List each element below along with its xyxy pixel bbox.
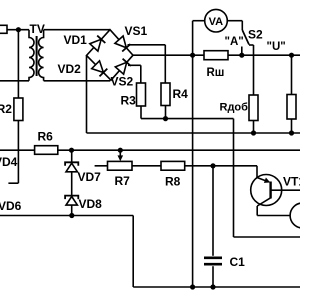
wire VA left lead down <box>192 21 194 287</box>
VT1 emitter with arrow <box>257 178 268 182</box>
thyristor VS1 <box>115 36 126 48</box>
svg-text:Rш: Rш <box>207 67 225 79</box>
wire zener ground line <box>0 215 133 217</box>
wire VT1 base lead <box>271 189 300 191</box>
indicator circle (cut at edge) <box>290 203 315 228</box>
wire VA left lead <box>193 20 205 22</box>
wire R3R4 bottom rail <box>141 118 234 120</box>
wire VS1 gate <box>128 44 166 46</box>
svg-text:VD1: VD1 <box>64 33 88 47</box>
switch S2 A-contact tick <box>241 47 243 56</box>
diode VD1 <box>90 39 101 51</box>
svg-text:R3: R3 <box>121 93 137 107</box>
svg-text:R7: R7 <box>115 174 131 188</box>
wire primary bottom <box>0 80 29 82</box>
thyristor VS2 <box>115 62 126 74</box>
resistor R8 <box>161 161 185 170</box>
svg-text:VD7: VD7 <box>78 170 102 184</box>
svg-text:R2: R2 <box>0 102 12 116</box>
wire S2 to Rdob <box>253 45 255 95</box>
wire emitter lead down <box>256 166 258 178</box>
wire R2 to lower stub <box>17 121 19 184</box>
node R8 right junction <box>210 163 215 168</box>
wire collector to lamp <box>257 215 290 217</box>
zener diode VD7 <box>66 163 77 172</box>
wire VA right lead <box>227 20 242 22</box>
wire bridge minus down <box>86 56 88 134</box>
svg-text:VD8: VD8 <box>79 197 103 211</box>
switch S2 lever <box>242 30 249 45</box>
resistor R3 <box>137 83 146 106</box>
resistor R2 <box>14 98 23 121</box>
wire secondary top to bridge <box>44 29 110 31</box>
wire R3 bottom <box>140 106 142 119</box>
resistor right edge <box>287 95 296 120</box>
svg-text:VS2: VS2 <box>111 75 134 89</box>
wire VD7 top lead <box>71 150 73 162</box>
svg-text:R4: R4 <box>173 87 189 101</box>
zener diode VD8 <box>66 197 77 206</box>
wire secondary bottom to bridge <box>44 80 111 82</box>
wire C1 top lead <box>212 166 214 256</box>
node R4 bottom junction <box>163 116 168 121</box>
resistor R6 <box>35 146 58 155</box>
wire bottom rail <box>133 286 300 288</box>
node R7 wiper junction <box>118 148 123 153</box>
svg-text:C1: C1 <box>230 255 246 269</box>
transformer TV secondary winding <box>39 30 44 81</box>
svg-text:VD6: VD6 <box>0 199 22 213</box>
wire down to bottom rail <box>132 216 134 288</box>
connector X1 input terminal <box>0 25 7 33</box>
VT1 base bar <box>269 182 271 199</box>
resistor R7 <box>108 161 133 170</box>
resistor Rsh shunt <box>204 51 228 60</box>
svg-text:VS1: VS1 <box>125 24 148 38</box>
transformer TV primary winding <box>29 30 34 81</box>
VT1 collector diagonal <box>257 198 270 206</box>
wire primary top <box>7 29 29 31</box>
svg-text:Rдоб: Rдоб <box>220 102 249 114</box>
wire to R2 <box>17 30 19 98</box>
wire R7 wiper <box>119 150 121 156</box>
wire y133 rail <box>87 132 301 134</box>
node A-contact on plus rail <box>239 53 244 58</box>
node Rdob bottom junction <box>251 130 256 135</box>
wire VD8 bottom lead <box>71 205 73 215</box>
meter VA <box>205 9 228 32</box>
svg-text:TV: TV <box>30 22 45 36</box>
transistor VT1 <box>251 175 282 206</box>
wire VS2 gate down to R3 <box>140 65 142 83</box>
wire x233 down <box>233 119 235 237</box>
switch S2 U-contact stub <box>249 44 254 46</box>
svg-text:VD4: VD4 <box>0 155 18 169</box>
wire R4 bottom <box>165 106 167 119</box>
node VD8 bottom junction <box>69 213 74 218</box>
diode VD2 <box>92 61 104 73</box>
wire Rdob bottom <box>253 121 255 134</box>
wire DC plus rail <box>133 54 300 56</box>
wire VS2 gate <box>128 64 141 66</box>
node bottom rail junction 2 <box>210 284 215 289</box>
node right resistor bottom junction <box>289 130 294 135</box>
wire VA right lead down <box>241 21 243 30</box>
wire right resistor top <box>291 55 293 94</box>
capacitor C1 <box>204 256 222 259</box>
wire y150 rail <box>0 149 300 151</box>
resistor R4 <box>161 83 170 106</box>
wire right resistor bottom <box>291 119 293 133</box>
wire VS1 gate down to R4 <box>164 45 166 83</box>
node VA-left on plus rail <box>190 53 195 58</box>
R7 wiper arrowhead <box>118 155 124 161</box>
svg-text:VA: VA <box>209 16 224 28</box>
diode bridge frame <box>87 30 134 80</box>
node right resistor top junction <box>289 53 294 58</box>
svg-text:VD2: VD2 <box>58 62 82 76</box>
svg-text:R6: R6 <box>38 129 54 143</box>
wire collector down <box>256 206 258 216</box>
node bottom rail junction 1 <box>190 284 195 289</box>
svg-text:S2: S2 <box>248 28 263 42</box>
svg-text:"A": "A" <box>225 36 244 48</box>
wire y237 to edge <box>234 236 301 238</box>
wire C1 bottom lead <box>212 266 214 287</box>
wire R7 R8 line <box>95 165 257 167</box>
transformer TV core <box>36 36 38 76</box>
svg-text:VT1: VT1 <box>283 175 300 189</box>
wire stub VD4 net <box>8 182 18 184</box>
resistor Rdob <box>249 95 258 121</box>
svg-text:"U": "U" <box>267 41 286 53</box>
svg-text:R8: R8 <box>165 174 181 188</box>
node VD7 top junction <box>69 148 74 153</box>
node junction input/R2 <box>16 27 21 32</box>
wire VD7-VD8 <box>71 172 73 196</box>
